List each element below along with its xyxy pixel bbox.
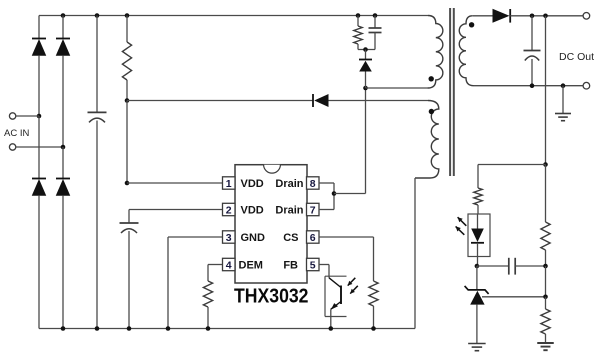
resistor R2 DEM [203, 281, 212, 307]
wire output ground stem [562, 86, 564, 114]
node D4 ground junction [61, 326, 66, 331]
wire fb cap right lead [515, 265, 545, 267]
U1 pin 7 box [307, 203, 320, 215]
svg-text:FB: FB [283, 260, 298, 272]
U1 pin 6 box [307, 231, 320, 243]
svg-text:AC IN: AC IN [4, 128, 29, 139]
node pin3 ground junction [166, 326, 171, 331]
T1 secondary phase dot [469, 22, 474, 27]
wire feedback tap to LED branch [478, 164, 546, 166]
resistor R3 snubber [354, 26, 362, 44]
svg-text:VDD: VDD [241, 178, 264, 190]
node CS ground junction [371, 326, 376, 331]
node divider cap junction [543, 264, 548, 269]
ground zener side [468, 343, 486, 345]
svg-text:5: 5 [310, 259, 316, 271]
node output cap bottom [530, 83, 535, 88]
node divider ref junction [543, 295, 548, 300]
node top rail / startup resistor [125, 13, 130, 18]
wire bottom ground rail [39, 328, 415, 330]
wire bulk cap lower lead [96, 121, 98, 329]
wire pin2 to C2 [128, 210, 130, 224]
U1 pin 3 box [223, 231, 236, 243]
U1 pin 8 box [307, 177, 320, 189]
wire zener upper lead [476, 266, 478, 290]
terminal DC Out positive [583, 13, 590, 20]
wire zener lower lead [476, 305, 478, 344]
T1 primary phase dot [429, 76, 434, 81]
wire snubber C upper lead [374, 16, 376, 29]
wire D7 cathode to DC+ terminal [510, 15, 583, 17]
transformer T1 aux winding [415, 101, 439, 179]
U1 pin-1 notch [264, 165, 281, 173]
node divider top [543, 14, 548, 19]
wire secondary top to D7 [472, 15, 492, 17]
U1 pin 2 box [223, 203, 236, 215]
node snubber R top [356, 13, 361, 18]
node AC-N junction [61, 145, 66, 150]
wire output cap lower lead [531, 59, 533, 86]
resistor R1 startup [122, 42, 131, 80]
node output cap top [530, 14, 535, 19]
wire divider riser [545, 16, 547, 165]
diode Z1 shunt reference [465, 286, 489, 294]
wire pin 2 VDD [129, 209, 223, 211]
node emitter ground junction [329, 326, 334, 331]
wire D5 anode to aux winding [329, 100, 429, 102]
wire AC lower terminal [16, 146, 63, 148]
U2 LED emission arrow 2 [456, 226, 465, 234]
wire VDD node down to pin1 [126, 101, 128, 184]
wire bulk cap upper lead [96, 16, 98, 113]
wire reference tap [482, 296, 546, 298]
wire AC-L node down to D3 [38, 116, 40, 179]
T1 core [449, 8, 451, 176]
wire top HV rail [39, 15, 428, 17]
U2 collector lead [329, 278, 341, 288]
wire AC upper terminal [16, 115, 39, 117]
node pin1 corner [125, 181, 130, 186]
wire divider lower lead [545, 334, 547, 343]
wire LED resistor upper lead [477, 165, 479, 189]
wire VDD node to D5 cathode [127, 100, 313, 102]
ground output side [555, 113, 571, 115]
node C2 ground junction [127, 326, 132, 331]
ground divider bottom [537, 342, 554, 344]
wire startup resistor upper lead [126, 16, 128, 43]
wire drain riser [365, 88, 367, 194]
wire pin5 to collector [328, 265, 330, 278]
wire D3 anode to ground rail [38, 196, 40, 329]
resistor R6 divider lower [541, 309, 550, 334]
svg-text:GND: GND [241, 232, 266, 244]
T1 aux phase dot [429, 109, 434, 114]
wire D4 anode to ground rail [62, 196, 64, 329]
wire startup resistor lower lead [126, 80, 128, 101]
node feedback tap junction [543, 162, 548, 167]
wire divider upper lead [545, 165, 547, 223]
U2 LED emission arrow 1 [458, 217, 467, 226]
terminal AC input lower [9, 144, 15, 150]
wire drain tie to riser [334, 193, 366, 195]
svg-text:8: 8 [310, 178, 316, 190]
capacitor C2 VDD [120, 222, 139, 224]
wire C2 to ground rail [128, 231, 130, 329]
wire pin 1 VDD [127, 182, 223, 184]
wire snubber C lower lead [374, 33, 376, 50]
terminal DC Out negative [583, 82, 590, 89]
diode D5 aux rectifier [312, 94, 314, 107]
resistor R4 LED series [474, 188, 482, 205]
resistor R7 current sense [369, 281, 378, 306]
wire LED resistor lower lead [477, 205, 479, 214]
node snubber C top [373, 13, 378, 18]
U2 emitter lead [331, 302, 341, 310]
wire divider mid lower [545, 297, 547, 309]
svg-text:CS: CS [283, 232, 298, 244]
wire pin 3 GND [168, 236, 223, 238]
wire aux return [414, 178, 416, 329]
wire pin 4 DEM [208, 264, 223, 266]
svg-text:2: 2 [226, 204, 232, 216]
wire divider mid upper [545, 250, 547, 266]
wire pin3 to ground rail [167, 237, 169, 329]
svg-text:7: 7 [310, 204, 316, 216]
svg-text:DEM: DEM [239, 260, 263, 272]
wire D2 cathode lead [62, 16, 64, 39]
svg-text:Drain: Drain [275, 205, 303, 217]
capacitor C4 output [524, 50, 541, 52]
wire DEM resistor lower lead [207, 307, 209, 329]
node top rail / bulk cap [95, 13, 100, 18]
U2 base bar [340, 286, 342, 305]
svg-text:Drain: Drain [275, 178, 303, 190]
wire divider mid [545, 266, 547, 297]
U2 LED diode [471, 229, 484, 243]
op-amp U1 THX3032 body [235, 165, 307, 283]
wire fb cap left lead [477, 265, 509, 267]
wire primary bottom lead [366, 87, 429, 89]
wire pin 8 drain [319, 182, 334, 184]
wire pin 6 CS [319, 236, 374, 238]
wire snubber R upper lead [357, 16, 359, 27]
wire pin 5 FB [319, 264, 329, 266]
diode D6 clamp [359, 59, 372, 61]
U1 pin 1 box [223, 177, 236, 189]
wire D2 anode to AC-N node [62, 56, 64, 147]
optocoupler U2 transistor outline [325, 275, 347, 277]
wire snubber R lower lead [357, 44, 359, 50]
transformer T1 secondary winding [459, 16, 473, 86]
bridge diode D2 [56, 38, 70, 40]
svg-text:4: 4 [226, 259, 232, 271]
wire emitter to ground rail [330, 309, 332, 328]
transformer T1 primary winding [428, 16, 443, 89]
capacitor C5 feedback [508, 258, 510, 275]
wire clamp diode upper lead [365, 50, 367, 60]
wire CS resistor lower lead [373, 306, 375, 329]
svg-text:6: 6 [310, 232, 316, 244]
node VDD supply junction [125, 98, 130, 103]
wire bridge left leg upper [38, 16, 40, 39]
svg-text:DC Out: DC Out [559, 51, 594, 63]
node AC-L junction [37, 114, 42, 119]
svg-text:THX3032: THX3032 [234, 286, 309, 308]
node DEM ground junction [206, 326, 211, 331]
wire output cap upper lead [531, 16, 533, 51]
bridge diode D1 [32, 38, 46, 40]
wire secondary bottom to DC- terminal [474, 85, 584, 87]
terminal AC input upper [9, 113, 15, 119]
svg-text:1: 1 [226, 178, 232, 190]
svg-text:VDD: VDD [241, 205, 264, 217]
node bulk cap ground junction [95, 326, 100, 331]
U2 LED anode lead [477, 214, 479, 229]
U1 pin 5 box [307, 258, 320, 270]
capacitor C3 snubber [369, 27, 382, 29]
wire D1 anode to AC-L node [38, 56, 40, 116]
node top rail / D2 [61, 13, 66, 18]
capacitor C1 bulk electrolytic [88, 111, 107, 113]
wire AC-N node to D4 [62, 147, 64, 179]
node drain tie junction [332, 191, 337, 196]
wire DEM resistor upper lead [207, 265, 209, 282]
wire pin8-pin7 tie [333, 183, 335, 210]
U1 pin 4 box [223, 258, 236, 270]
optocoupler U2 LED box [468, 214, 490, 257]
node snubber clamp junction [363, 47, 368, 52]
node LED cathode junction [475, 264, 480, 269]
bridge diode D3 [32, 178, 46, 180]
wire pin 7 drain [319, 209, 334, 211]
bridge diode D4 [56, 178, 70, 180]
wire clamp diode lower lead [365, 72, 367, 89]
U2 light arrow 1 [348, 278, 356, 286]
node drain / primary junction [363, 86, 368, 91]
U2 light arrow 2 [350, 286, 358, 294]
svg-text:3: 3 [226, 232, 232, 244]
node output ground junction [561, 83, 566, 88]
U2 LED cathode lead [477, 243, 479, 266]
wire snubber RC join [358, 49, 375, 51]
diode D7 output rectifier [493, 9, 510, 23]
resistor R5 divider upper [541, 222, 550, 250]
wire CS resistor upper lead [373, 237, 375, 281]
